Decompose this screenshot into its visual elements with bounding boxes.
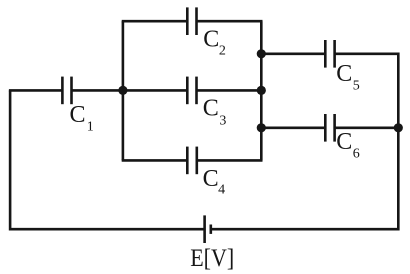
wire bottom-right segment + right vertical + C5 right lead [211, 54, 398, 229]
label C6 [336, 129, 360, 161]
wire right bus vertical [260, 21, 263, 160]
wire left vertical + bottom-left segment [10, 90, 205, 229]
wire C4 right lead [197, 159, 263, 162]
battery E [205, 215, 211, 243]
svg-text:C: C [336, 129, 352, 155]
capacitor C6 [325, 114, 334, 142]
label C1 [70, 102, 94, 134]
svg-text:2: 2 [219, 43, 226, 58]
wire C2 right lead [197, 20, 263, 23]
capacitor C4 [187, 147, 197, 175]
svg-text:C: C [203, 95, 219, 121]
wire C5 left lead [261, 52, 325, 55]
svg-text:1: 1 [87, 119, 94, 134]
capacitor C2 [187, 7, 196, 35]
wire C1 left lead [9, 89, 63, 92]
node junction left [118, 86, 127, 95]
label C3 [203, 95, 227, 128]
wire C6 right lead [335, 127, 399, 130]
svg-text:C: C [203, 26, 219, 52]
wire left bus vertical [122, 21, 125, 160]
svg-text:C: C [70, 102, 86, 128]
capacitor C5 [325, 40, 334, 68]
svg-text:E[V]: E[V] [190, 245, 234, 272]
svg-text:5: 5 [353, 79, 360, 94]
node junction bus middle [257, 86, 266, 95]
label C4 [203, 166, 226, 198]
capacitor C1 [62, 77, 71, 105]
label C5 [336, 61, 360, 93]
svg-text:C: C [203, 166, 219, 192]
wire C4 left lead [122, 159, 188, 162]
svg-text:4: 4 [218, 182, 225, 197]
svg-text:6: 6 [353, 147, 360, 162]
svg-text:3: 3 [219, 113, 226, 128]
node junction right [394, 123, 403, 132]
node junction bus bottom [257, 123, 266, 132]
wire C1 right lead [72, 89, 123, 92]
wire C2 left lead [122, 20, 188, 23]
capacitor C3 [187, 77, 196, 105]
node junction bus top [257, 49, 266, 58]
label C2 [203, 26, 226, 58]
wire C3 right lead [197, 89, 263, 92]
wire C6 left lead [261, 127, 325, 130]
wire C3 left lead [122, 89, 188, 92]
svg-text:C: C [336, 61, 352, 87]
